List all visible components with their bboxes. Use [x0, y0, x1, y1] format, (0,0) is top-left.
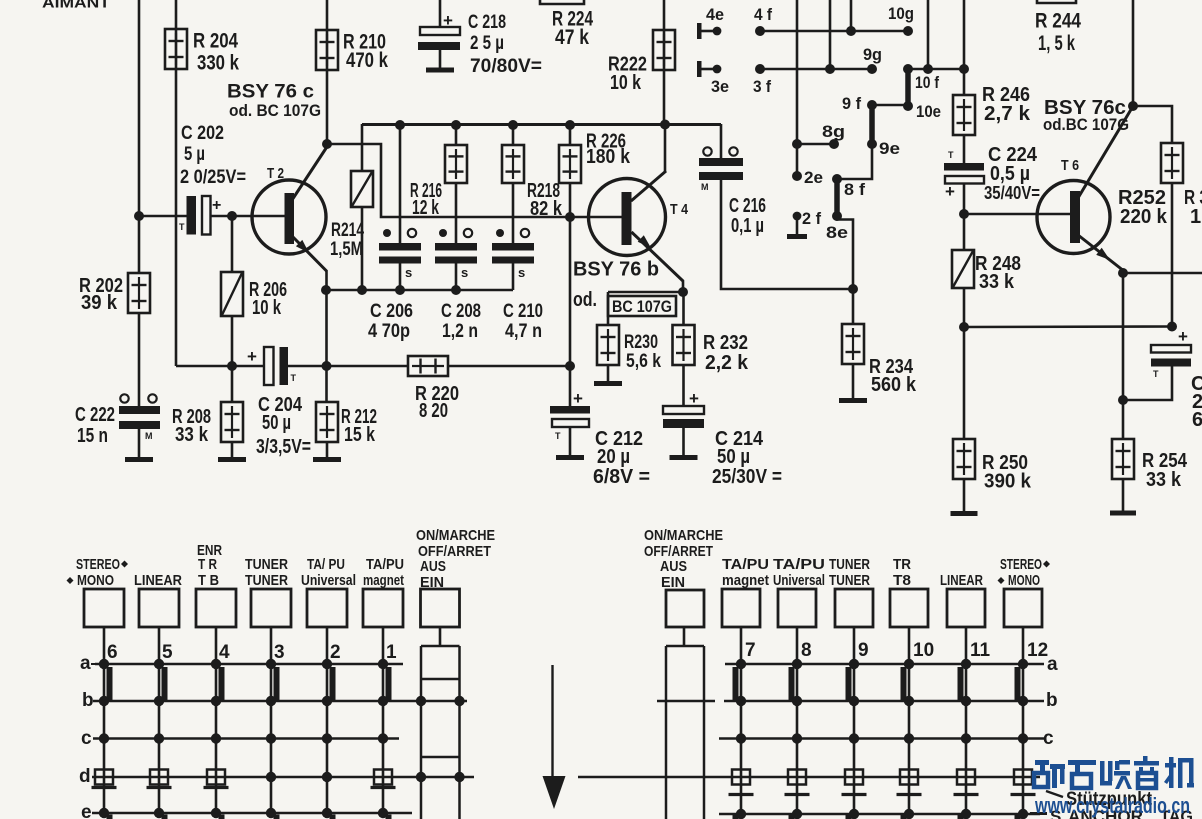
node 3f	[755, 64, 765, 74]
switch bar a-b right column 8	[789, 667, 795, 701]
wire C226 bottom	[1123, 367, 1172, 401]
transistor T2	[252, 180, 326, 254]
wire T2 emitter to R212	[325, 290, 328, 402]
wire left column 3 vertical	[270, 664, 273, 813]
wire row a (right)	[725, 663, 1044, 666]
switch box left column 3	[251, 589, 291, 627]
node C226/R254 junction	[1118, 395, 1128, 405]
node bus junction R216	[451, 120, 461, 130]
switch bar a-b left column 5	[162, 667, 168, 701]
switch bar 9f-9e	[869, 105, 875, 144]
capacitor C224	[944, 150, 984, 201]
node bus junction R226	[565, 120, 575, 130]
stub below row e left column 6	[107, 815, 113, 819]
wire C216 bottom to R234 node	[721, 180, 853, 289]
node left EIN row d left	[416, 772, 426, 782]
node row a	[736, 659, 746, 669]
node row c	[211, 733, 221, 743]
node 10f	[903, 64, 913, 74]
svg-text:4,7 n: 4,7 n	[505, 321, 542, 342]
wire 8g link	[797, 143, 834, 146]
node 4f	[755, 26, 765, 36]
svg-text:220 k: 220 k	[1120, 206, 1168, 228]
wire R218 to C210	[512, 183, 515, 243]
node row e	[736, 809, 746, 819]
node 9g	[867, 64, 877, 74]
node row e	[904, 809, 914, 819]
ground R208	[218, 457, 246, 462]
node row a	[99, 659, 109, 669]
capacitor C206	[379, 229, 421, 280]
wire right column 9 vertical	[853, 664, 856, 814]
wire R246 to C224	[963, 135, 966, 163]
svg-text:T: T	[291, 373, 297, 383]
resistor R224 (partial box at top)	[540, 0, 584, 4]
svg-text:47 k: 47 k	[555, 26, 589, 49]
svg-text:AIMANT: AIMANT	[42, 0, 110, 12]
switch box right column 7	[722, 589, 760, 627]
svg-text:EIN: EIN	[661, 574, 685, 591]
node row a	[792, 659, 802, 669]
svg-text:3: 3	[274, 642, 285, 663]
svg-text:M: M	[701, 182, 709, 192]
node row c	[266, 733, 276, 743]
node row d	[322, 772, 332, 782]
node R246 line junction	[959, 64, 969, 74]
node T6 emitter junction	[1118, 268, 1128, 278]
svg-text:2,2 k: 2,2 k	[705, 352, 749, 374]
node row a	[961, 659, 971, 669]
anchor square row d	[95, 770, 113, 785]
svg-text:7: 7	[745, 640, 756, 661]
svg-text:TUNER: TUNER	[829, 556, 870, 573]
svg-text:4 f: 4 f	[754, 5, 772, 24]
wire stem left column 1	[382, 627, 385, 664]
svg-text:C 222: C 222	[75, 404, 115, 426]
node left EIN row d right	[454, 772, 464, 782]
anchor square row d	[957, 770, 975, 785]
anchor tag mark	[729, 793, 754, 796]
resistor R216	[445, 145, 467, 183]
resistor R234	[842, 324, 864, 364]
svg-text:T 4: T 4	[670, 201, 689, 218]
wire AIMANT vertical	[138, 0, 141, 216]
stub below row e right column 7	[733, 815, 739, 819]
svg-text:5 µ: 5 µ	[184, 144, 205, 165]
wire right column 12 vertical	[1022, 664, 1025, 814]
resistor R208	[221, 402, 243, 442]
svg-text:www.crystalradio.cn: www.crystalradio.cn	[1034, 793, 1190, 818]
svg-text:T R: T R	[198, 556, 217, 573]
node row b	[211, 696, 221, 706]
wire stem left column 3	[270, 627, 273, 664]
stub below row e right column 8	[789, 815, 795, 819]
svg-text:M: M	[145, 431, 153, 441]
svg-text:TA/PU: TA/PU	[722, 556, 769, 573]
node row b	[266, 696, 276, 706]
wire R226 to base line	[569, 183, 572, 217]
wire C204 to R220	[288, 365, 408, 368]
svg-text:C 202: C 202	[181, 123, 224, 144]
transistor T4	[589, 179, 666, 256]
svg-text:39 k: 39 k	[81, 292, 118, 314]
node T4 emitter junction	[678, 287, 688, 297]
wire R214 drop from bus	[361, 124, 364, 171]
svg-text:15 n: 15 n	[77, 425, 108, 447]
svg-text:10 k: 10 k	[252, 297, 282, 319]
anchor tag mark	[147, 786, 172, 789]
svg-text:15 k: 15 k	[344, 424, 376, 446]
anchor square row d	[900, 770, 918, 785]
node row e	[266, 808, 276, 818]
anchor tag mark	[785, 793, 810, 796]
svg-text:c: c	[1043, 728, 1054, 749]
node row c	[1018, 733, 1028, 743]
wire stem right column 8	[796, 627, 799, 664]
node T6 base junction	[959, 209, 969, 219]
node row b	[736, 696, 746, 706]
stub below row e left column 2	[330, 815, 336, 819]
anchor tag mark	[371, 786, 396, 789]
wire R254 ground	[1122, 479, 1125, 511]
capacitor C204	[247, 347, 297, 385]
svg-text:9e: 9e	[879, 139, 900, 158]
resistor R244 (partial box at top)	[1037, 0, 1076, 3]
svg-text:5: 5	[162, 642, 173, 663]
svg-text:ON/MARCHE: ON/MARCHE	[644, 527, 723, 544]
node R226/base-line junction	[565, 212, 575, 222]
svg-text:5,6 k: 5,6 k	[626, 351, 661, 372]
wire 10f segment	[908, 68, 964, 71]
capacitor C210	[492, 229, 534, 280]
svg-text:T: T	[948, 150, 954, 160]
svg-text:BSY 76 c: BSY 76 c	[227, 82, 314, 103]
wire T6 emitter	[1078, 235, 1122, 270]
wire emitter line to right edge	[1123, 272, 1202, 275]
switch box right column 9	[835, 589, 873, 627]
node row a	[211, 659, 221, 669]
node 9e	[867, 139, 877, 149]
svg-text:C 210: C 210	[503, 301, 543, 322]
wire R220 to C212 node	[448, 365, 570, 368]
resistor R212	[316, 402, 338, 442]
svg-text:8e: 8e	[826, 223, 848, 242]
svg-text:1,5M: 1,5M	[330, 239, 363, 260]
wire R202 section of AIMANT line	[138, 216, 141, 273]
svg-text:ON/MARCHE: ON/MARCHE	[416, 527, 495, 544]
wire stem left column 5	[158, 627, 161, 664]
node row e	[849, 809, 859, 819]
node row e	[322, 808, 332, 818]
svg-text:82 k: 82 k	[530, 198, 563, 220]
anchor tag mark	[204, 786, 229, 789]
svg-text:Universal: Universal	[301, 572, 356, 589]
node row c	[154, 733, 164, 743]
wire emitter to R254	[1122, 273, 1125, 439]
resistor R252	[1161, 143, 1183, 183]
wire vertical drop to 3f row	[829, 0, 832, 69]
svg-text:T B: T B	[198, 572, 219, 589]
wire R204 vertical feed	[175, 0, 178, 366]
switch bar a-b left column 3	[274, 667, 280, 701]
svg-text:11: 11	[970, 640, 991, 661]
node 10g junction	[846, 26, 856, 36]
wire R250	[963, 327, 966, 439]
wire C222 to ground	[138, 429, 141, 458]
svg-text:+: +	[945, 182, 955, 201]
switch bar a-b right column 11	[958, 667, 964, 701]
wire left column 6 vertical	[103, 664, 106, 813]
wire vertical drop to 10f row	[927, 0, 930, 69]
resistor R250	[953, 439, 975, 479]
svg-text:C 208: C 208	[441, 301, 481, 322]
wire stem right column 10	[908, 627, 911, 664]
svg-text:C 216: C 216	[729, 195, 766, 217]
svg-text:magnet: magnet	[722, 572, 769, 589]
svg-text:TA/PU: TA/PU	[773, 556, 825, 573]
wire 9f to 10e	[872, 104, 908, 107]
svg-text:560 k: 560 k	[871, 374, 917, 396]
svg-text:4: 4	[219, 642, 230, 663]
node 8g	[829, 139, 839, 149]
wire C202 to T2 base	[211, 215, 286, 218]
wire row d (right)	[578, 776, 1040, 779]
wire row d (left)	[92, 776, 474, 779]
ground R212	[313, 457, 341, 462]
ground C222	[125, 457, 153, 462]
capacitor C218	[418, 0, 460, 68]
svg-text:20 µ: 20 µ	[597, 446, 630, 468]
svg-text:s: s	[405, 265, 412, 280]
svg-text:BC 107G: BC 107G	[612, 297, 672, 316]
svg-text:50 µ: 50 µ	[717, 446, 750, 468]
stub below row e right column 12	[1015, 815, 1021, 819]
svg-text:1: 1	[1190, 206, 1201, 228]
svg-text:+: +	[573, 389, 583, 408]
node R206/R208 junction	[227, 361, 237, 371]
node row b	[378, 696, 388, 706]
switch bar a-b left column 2	[330, 667, 336, 701]
svg-text:1, 5 k: 1, 5 k	[1038, 32, 1075, 55]
node row c	[378, 733, 388, 743]
node left EIN row b left	[416, 696, 426, 706]
node R220/C212 junction	[565, 361, 575, 371]
capacitor C208	[435, 229, 477, 280]
holder rect right EIN column	[666, 646, 704, 819]
node row c	[736, 733, 746, 743]
wire bus to R218	[512, 125, 515, 145]
node C206 bottom junction	[395, 285, 405, 295]
stub below row e right column 9	[846, 815, 852, 819]
node row c	[322, 733, 332, 743]
wire bus to C206	[399, 125, 402, 243]
contact 2f	[787, 212, 807, 237]
wire right column 10 vertical	[908, 664, 911, 814]
transistor T6	[1037, 181, 1110, 254]
wire vertical drop to 4f row	[850, 0, 853, 31]
svg-text:6/8V =: 6/8V =	[593, 466, 650, 488]
svg-text:10g: 10g	[888, 4, 914, 23]
switch box left column 1	[363, 589, 403, 627]
wire stem left EIN	[439, 627, 442, 646]
box BC 107G	[608, 296, 676, 316]
anchor tag mark	[1011, 793, 1036, 796]
svg-text:TUNER: TUNER	[829, 572, 870, 589]
svg-text:10: 10	[913, 640, 934, 661]
svg-text:s: s	[461, 265, 468, 280]
svg-text:70/80V=: 70/80V=	[470, 56, 542, 77]
svg-text:MONO: MONO	[1008, 572, 1040, 589]
wire base line to T6	[964, 213, 1071, 216]
svg-text:35/40V=: 35/40V=	[984, 183, 1040, 203]
svg-text:LINEAR: LINEAR	[940, 572, 983, 589]
wire base feed to C202	[139, 215, 187, 218]
node T6 collector junction	[1128, 101, 1138, 111]
ground R234	[839, 398, 867, 403]
wire 8e to R234 node	[837, 216, 853, 289]
ground R254	[1110, 511, 1136, 516]
ground C218	[426, 68, 454, 73]
wire right column 11 vertical	[965, 664, 968, 814]
svg-text:s: s	[518, 265, 525, 280]
wire stem right column 9	[853, 627, 856, 664]
wire base node to R248	[963, 214, 966, 250]
switch bar 8f-8e	[834, 179, 840, 216]
switch bar a-b right column 12	[1015, 667, 1021, 701]
svg-text:33 k: 33 k	[175, 424, 209, 446]
wire collector to coupling line	[327, 144, 622, 217]
wire stem left column 4	[215, 627, 218, 664]
svg-text:C 218: C 218	[468, 12, 506, 33]
node 10f-row junction	[923, 64, 933, 74]
ground R230	[594, 381, 622, 386]
wire R206 hang	[231, 216, 234, 272]
svg-text:3/3,5V=: 3/3,5V=	[256, 436, 311, 458]
svg-text:c: c	[81, 728, 92, 749]
svg-text:BSY 76 b: BSY 76 b	[573, 259, 659, 281]
contact 4e	[697, 23, 721, 39]
switch bar a-b right column 10	[901, 667, 907, 701]
wire row b (left)	[93, 700, 467, 703]
wire R208 ground	[231, 442, 234, 458]
anchor tag mark	[92, 786, 117, 789]
svg-text:2 f: 2 f	[802, 209, 821, 228]
svg-text:R 204: R 204	[193, 30, 238, 53]
wire R208 hang	[231, 366, 234, 402]
resistor R210	[316, 30, 338, 70]
ground C214	[670, 455, 698, 460]
capacitor C212	[550, 366, 590, 456]
wire R248 to lower node	[963, 288, 966, 327]
svg-text:3 f: 3 f	[753, 77, 771, 96]
node C226 top junction	[1167, 322, 1177, 332]
svg-text:0,1 µ: 0,1 µ	[731, 215, 764, 237]
wire R252 to feedback node	[1171, 183, 1174, 327]
anchor tag mark	[954, 793, 979, 796]
arrow (selector direction)	[543, 665, 566, 809]
svg-text:T: T	[179, 222, 185, 232]
resistor R232	[673, 325, 695, 365]
resistor R222	[653, 30, 675, 70]
svg-text:2: 2	[330, 642, 341, 663]
svg-text:50 µ: 50 µ	[262, 412, 291, 434]
node row a	[378, 659, 388, 669]
switch bar a-b left column 4	[219, 667, 225, 701]
node row e	[961, 809, 971, 819]
wire R230 ground	[607, 365, 610, 382]
wire R206 to node line	[231, 316, 234, 366]
svg-text:TA/PU: TA/PU	[366, 556, 404, 573]
svg-text:STEREO: STEREO	[76, 556, 120, 573]
node 8e	[832, 211, 842, 221]
wire left column 1 vertical	[382, 664, 385, 813]
stub below row e left column 1	[386, 815, 392, 819]
capacitor C216	[699, 124, 743, 192]
resistor R204	[165, 29, 187, 69]
wire right column 8 vertical	[796, 664, 799, 814]
annotation pointer to anchor tag	[1046, 791, 1063, 797]
node row c	[904, 733, 914, 743]
wire T2 collector	[292, 146, 328, 200]
node 3f junction	[825, 64, 835, 74]
svg-text:T 6: T 6	[1061, 157, 1079, 174]
wire row c (left)	[93, 737, 399, 740]
svg-text:2,7 k: 2,7 k	[984, 103, 1031, 125]
node row a	[322, 659, 332, 669]
svg-text:390 k: 390 k	[984, 471, 1032, 493]
switch box left column 2	[307, 589, 347, 627]
node row a	[1018, 659, 1028, 669]
svg-text:C 206: C 206	[370, 301, 413, 322]
switch box right column 8	[778, 589, 816, 627]
node row c	[961, 733, 971, 743]
node bus junction C206	[395, 120, 405, 130]
capacitor C214	[663, 365, 704, 456]
svg-text:2 5 µ: 2 5 µ	[470, 33, 504, 54]
wire bus to R216	[455, 125, 458, 145]
wire bus to R226	[569, 125, 572, 145]
anchor square row d	[374, 770, 392, 785]
svg-text:12: 12	[1027, 640, 1048, 661]
svg-text:e: e	[81, 802, 92, 819]
svg-text:R 232: R 232	[703, 332, 748, 354]
svg-text:TUNER: TUNER	[245, 556, 288, 573]
watermark chinese characters	[1034, 756, 1194, 789]
wire row a (left)	[95, 663, 403, 666]
wire row e (right)	[719, 813, 1040, 816]
anchor tag mark	[897, 793, 922, 796]
svg-text:470 k: 470 k	[346, 49, 388, 72]
wire stem left column 6	[103, 627, 106, 664]
wire collector node to R252	[1133, 106, 1172, 143]
node row a	[849, 659, 859, 669]
resistor R206 (adjustable)	[221, 272, 243, 316]
resistor R214 (adjustable)	[351, 171, 373, 207]
svg-text:MONO: MONO	[77, 572, 114, 589]
capacitor C222	[119, 394, 160, 441]
stub below row e left column 3	[274, 815, 280, 819]
node row a	[154, 659, 164, 669]
svg-text:od. BC 107G: od. BC 107G	[229, 101, 321, 120]
resistor R230	[597, 325, 619, 365]
svg-text:STEREO: STEREO	[1000, 556, 1042, 573]
svg-text:a: a	[80, 653, 91, 674]
svg-text:od.BC 107G: od.BC 107G	[1043, 115, 1129, 134]
bus wire (supply rail)	[362, 123, 721, 126]
wire T6 collector diagonal	[1078, 107, 1133, 198]
node row c	[849, 733, 859, 743]
node 8g junction on 2e line	[792, 139, 802, 149]
